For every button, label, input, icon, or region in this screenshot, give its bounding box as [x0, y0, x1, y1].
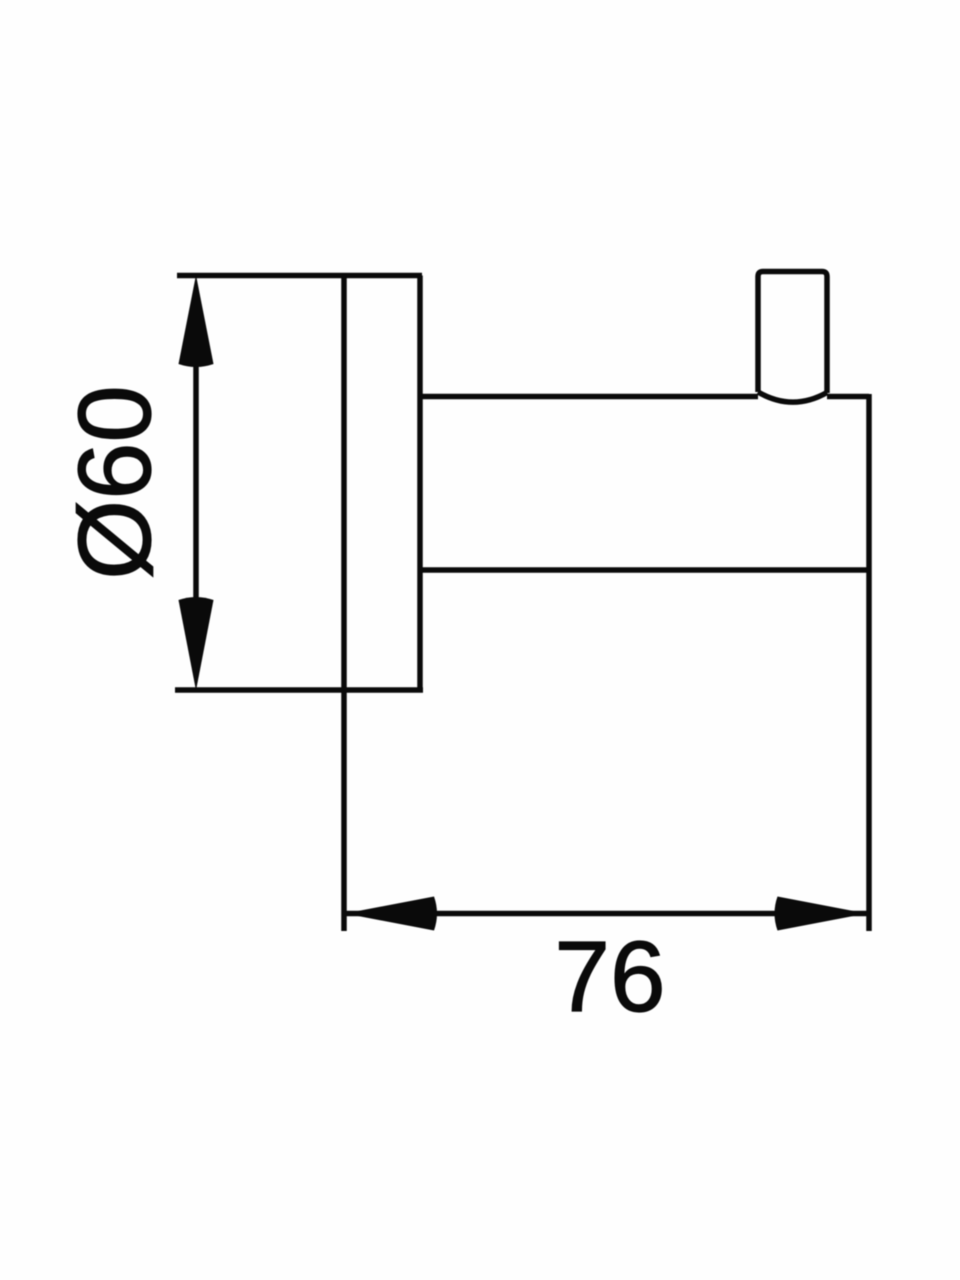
extension line bottom (wall plate bottom, x175-423 at y690) [175, 687, 423, 693]
wall plate right edge [417, 276, 423, 691]
hook arm top line (left of peg) [420, 394, 758, 400]
dimension line 76 (horizontal shaft) [346, 911, 867, 917]
dimension line Ø60 (vertical shaft) [193, 364, 199, 600]
extension line top (wall plate top, x177-422 at y275) [177, 273, 422, 279]
arrowhead left (76 left) [345, 897, 437, 931]
arrowhead down (Ø60 bottom) [179, 597, 214, 691]
peg outline (vertical post with rounded top) [758, 272, 827, 394]
arrowhead up (Ø60 top) [179, 275, 214, 367]
hook arm top line (right of peg) [827, 394, 869, 400]
wall plate left edge / extension line for 76 dimension [341, 273, 347, 931]
svg-text:76: 76 [554, 921, 665, 1033]
peg bottom arc [758, 392, 827, 402]
hook arm right end edge / extension line for 76 dimension [866, 394, 872, 931]
arrowhead right (76 right) [775, 897, 867, 931]
svg-text:Ø60: Ø60 [57, 385, 172, 580]
hook arm bottom line [420, 567, 869, 573]
